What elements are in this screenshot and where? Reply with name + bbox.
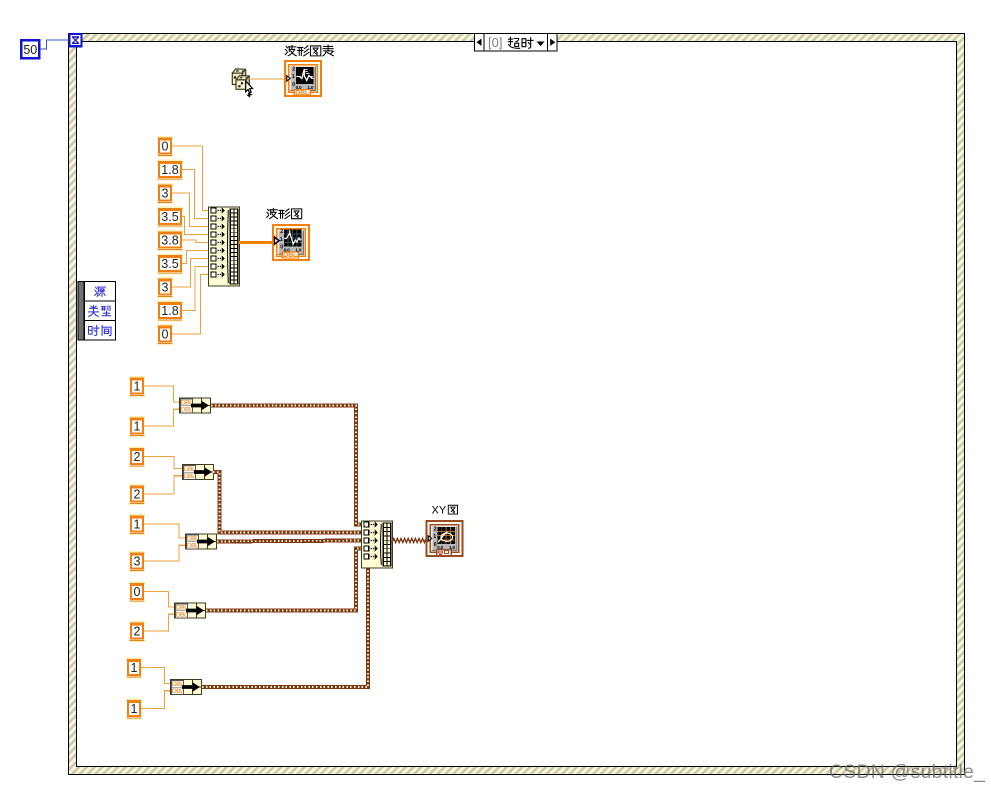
wire build array 2 to XY graph (array of cluster): [392, 539, 426, 543]
svg-text:DBL: DBL: [181, 407, 193, 414]
wire dice to waveform chart: [249, 78, 286, 80]
numeric constant 2 (pair D bottom): [130, 621, 145, 642]
svg-text:1: 1: [131, 702, 138, 716]
svg-text:0: 0: [162, 327, 169, 341]
svg-text:1: 1: [280, 237, 283, 243]
label 波形图: [267, 208, 302, 218]
numeric constant 1 (pair A bottom): [130, 416, 145, 437]
numeric constant 1.8 (row 8): [158, 301, 183, 322]
svg-text:2: 2: [134, 487, 141, 501]
svg-text:DBL: DBL: [187, 543, 199, 550]
wire constant 1 to bundle E: [141, 691, 170, 709]
wire constant 3 to bundle C: [144, 545, 185, 561]
svg-text:0: 0: [162, 139, 169, 153]
wire constant 1 to bundle A: [144, 409, 179, 426]
wire constant 3 to build array input 3: [172, 193, 208, 227]
numeric constant 2 (pair B top): [130, 447, 145, 468]
svg-text:DBL: DBL: [283, 252, 297, 259]
svg-text:1.8: 1.8: [161, 163, 178, 177]
svg-text:50: 50: [23, 43, 37, 57]
svg-text:DBL: DBL: [172, 688, 184, 695]
numeric constant 1.8 (row 2): [158, 160, 183, 181]
wire constant 1 to bundle A: [144, 386, 179, 402]
XY graph terminal: [427, 521, 463, 556]
wire constant 2 to bundle D: [144, 614, 174, 631]
numeric constant 0 (row 9): [158, 324, 173, 345]
numeric constant 1 (pair E bottom): [127, 699, 142, 720]
numeric constant 3.8 (row 5): [158, 230, 183, 251]
numeric constant 1 (pair A top): [130, 376, 145, 397]
numeric constant 2 (pair B bottom): [130, 484, 145, 505]
wire 50 to timeout terminal: [40, 40, 69, 49]
build array node 2 (5 inputs): [362, 521, 393, 568]
cluster wire bundle C to build array input 3: [217, 541, 361, 542]
svg-text:DBL: DBL: [176, 612, 188, 619]
svg-text:[0]: [0]: [488, 35, 502, 50]
svg-text:3: 3: [162, 280, 169, 294]
svg-text:2: 2: [280, 229, 283, 235]
wire build array to waveform graph (array DBL): [239, 241, 272, 244]
cluster wire bundle A to build array input 1: [211, 406, 361, 525]
bundle node A: [180, 398, 211, 414]
svg-text:1: 1: [131, 661, 138, 675]
wire constant 3.8 to build array input 5: [182, 240, 208, 243]
wire constant 1 to bundle C: [144, 524, 185, 538]
event data node (源/类型/时间): [78, 282, 116, 341]
event structure selector label "[0] 超时": [475, 34, 558, 52]
wire constant 2 to bundle B: [144, 476, 182, 494]
numeric constant 3.5 (row 6): [158, 254, 183, 275]
bundle node B: [183, 465, 214, 481]
wire constant 3.5 to build array input 6: [182, 251, 208, 264]
svg-text:DBL: DBL: [295, 90, 309, 97]
cluster wire bundle D to build array input 4: [206, 549, 361, 611]
svg-text:2: 2: [292, 67, 295, 73]
wire constant 1.8 to build array input 2: [182, 170, 208, 219]
wire constant 0 to build array input 1: [172, 146, 208, 211]
cluster wire bundle B to build array input 2: [213, 472, 361, 533]
svg-text:3.5: 3.5: [161, 257, 178, 271]
wire constant 2 to bundle B: [144, 457, 182, 469]
svg-text:1: 1: [134, 517, 141, 531]
numeric constant 3.5 (row 4): [158, 207, 183, 228]
numeric constant 1 (pair C top): [130, 514, 145, 535]
cluster wire bundle E to build array input 5: [202, 557, 368, 688]
build array node (9 inputs): [209, 207, 240, 286]
bundle node C: [186, 534, 217, 550]
svg-text:DBL: DBL: [184, 473, 196, 480]
svg-text:XY: XY: [432, 505, 447, 517]
waveform chart terminal: [285, 61, 321, 97]
bundle node E: [171, 680, 202, 696]
svg-text:CSDN @subtitle_: CSDN @subtitle_: [829, 761, 986, 783]
svg-text:3: 3: [162, 186, 169, 200]
svg-text:2: 2: [134, 450, 141, 464]
wire constant 3.5 to build array input 4: [182, 217, 208, 235]
svg-text:1: 1: [134, 379, 141, 393]
svg-text:1: 1: [134, 419, 141, 433]
svg-text:3: 3: [134, 554, 141, 568]
svg-text:1: 1: [292, 74, 295, 80]
svg-text:1: 1: [433, 534, 436, 540]
numeric constant 0 (pair D top): [130, 582, 145, 603]
svg-text:2: 2: [134, 624, 141, 638]
svg-text:2: 2: [434, 527, 437, 533]
wire constant 0 to build array input 9: [172, 275, 208, 335]
wire constant 0 to bundle D: [144, 592, 174, 607]
numeric constant 3 (pair C bottom): [130, 551, 145, 572]
wire constant 1 to bundle E: [141, 668, 170, 684]
wire constant 3 to build array input 7: [172, 259, 208, 288]
event structure timeout terminal (hourglass): [70, 34, 82, 46]
label 波形图表: [285, 45, 333, 56]
numeric constant 50 (I32): [21, 40, 39, 58]
random number (dice) icon with cursor: [232, 69, 252, 97]
svg-text:3.5: 3.5: [161, 210, 178, 224]
svg-text:0: 0: [134, 585, 141, 599]
svg-text:3.8: 3.8: [161, 233, 178, 247]
svg-text:1.8: 1.8: [161, 304, 178, 318]
numeric constant 1 (pair E top): [127, 658, 142, 679]
label XY图: [432, 505, 458, 517]
bundle node D: [175, 603, 206, 619]
numeric constant 3 (row 7): [158, 277, 173, 298]
waveform graph terminal: [273, 225, 309, 260]
wire constant 1.8 to build array input 8: [182, 267, 208, 311]
numeric constant 3 (row 3): [158, 183, 173, 204]
numeric constant 0 (row 1): [158, 136, 173, 157]
